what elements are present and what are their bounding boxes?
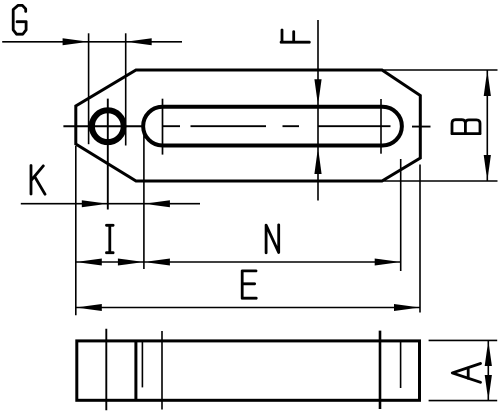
label G [13, 5, 26, 34]
side view slot left centerline [161, 331, 163, 410]
dim B extension bottom [383, 180, 498, 182]
side view hole centerline [105, 329, 107, 411]
dim N arrow left [144, 259, 170, 266]
side view chamfer edge [134, 341, 137, 400]
dim F line [317, 20, 319, 201]
side view slot left edge [141, 341, 143, 388]
slot centerline dashes [162, 125, 391, 127]
dim I arrow left [76, 259, 102, 266]
label N [266, 225, 279, 253]
dim E arrow left [76, 304, 102, 311]
ext slot right edge [400, 159, 402, 271]
dim B arrow up [484, 70, 491, 96]
plate centerline tick at right edge [412, 126, 431, 128]
dim I/N line [76, 261, 401, 263]
hole centerline vertical (K reference) [107, 99, 109, 210]
dim I arrow right [118, 259, 144, 266]
hole centerline horizontal [63, 125, 142, 127]
hole [92, 110, 124, 142]
dim E line [76, 307, 420, 309]
dim K arrow right [82, 200, 108, 207]
dim G line [2, 41, 182, 43]
side view slot right centerline / chamfer [379, 331, 382, 409]
label A (rotated) [452, 364, 480, 383]
label K [31, 166, 45, 195]
slot [143, 107, 402, 146]
label E [242, 271, 256, 298]
dim B line [486, 70, 488, 181]
ext plate right edge [419, 165, 421, 313]
dim B extension top [383, 69, 498, 71]
dim A extension bottom [429, 400, 498, 402]
dim F arrow down [314, 79, 321, 105]
ext plate left edge [75, 146, 77, 315]
side view slot right edge [400, 341, 402, 388]
ext slot left edge [143, 128, 145, 269]
dim B arrow down [484, 155, 491, 181]
dim G arrow right [126, 38, 152, 45]
slot left end centerline [162, 99, 164, 155]
dim F arrow up [314, 148, 321, 175]
label B (rotated) [452, 120, 480, 134]
dim A arrow up [485, 340, 492, 366]
label I [107, 225, 114, 252]
dim E arrow right [394, 304, 420, 311]
dim N arrow right [375, 259, 401, 266]
dim A extension top [429, 339, 498, 341]
slot right end centerline [380, 99, 382, 154]
dim A line [487, 340, 489, 400]
dim G extension right [125, 33, 127, 145]
plate outline [76, 70, 421, 181]
label F (rotated) [281, 30, 309, 42]
dim K arrow left [144, 200, 170, 207]
dim G extension left [88, 33, 90, 144]
dim A arrow down [485, 375, 492, 401]
side view outline [77, 341, 420, 400]
dim G arrow left [63, 38, 89, 45]
dim K line [21, 203, 200, 205]
